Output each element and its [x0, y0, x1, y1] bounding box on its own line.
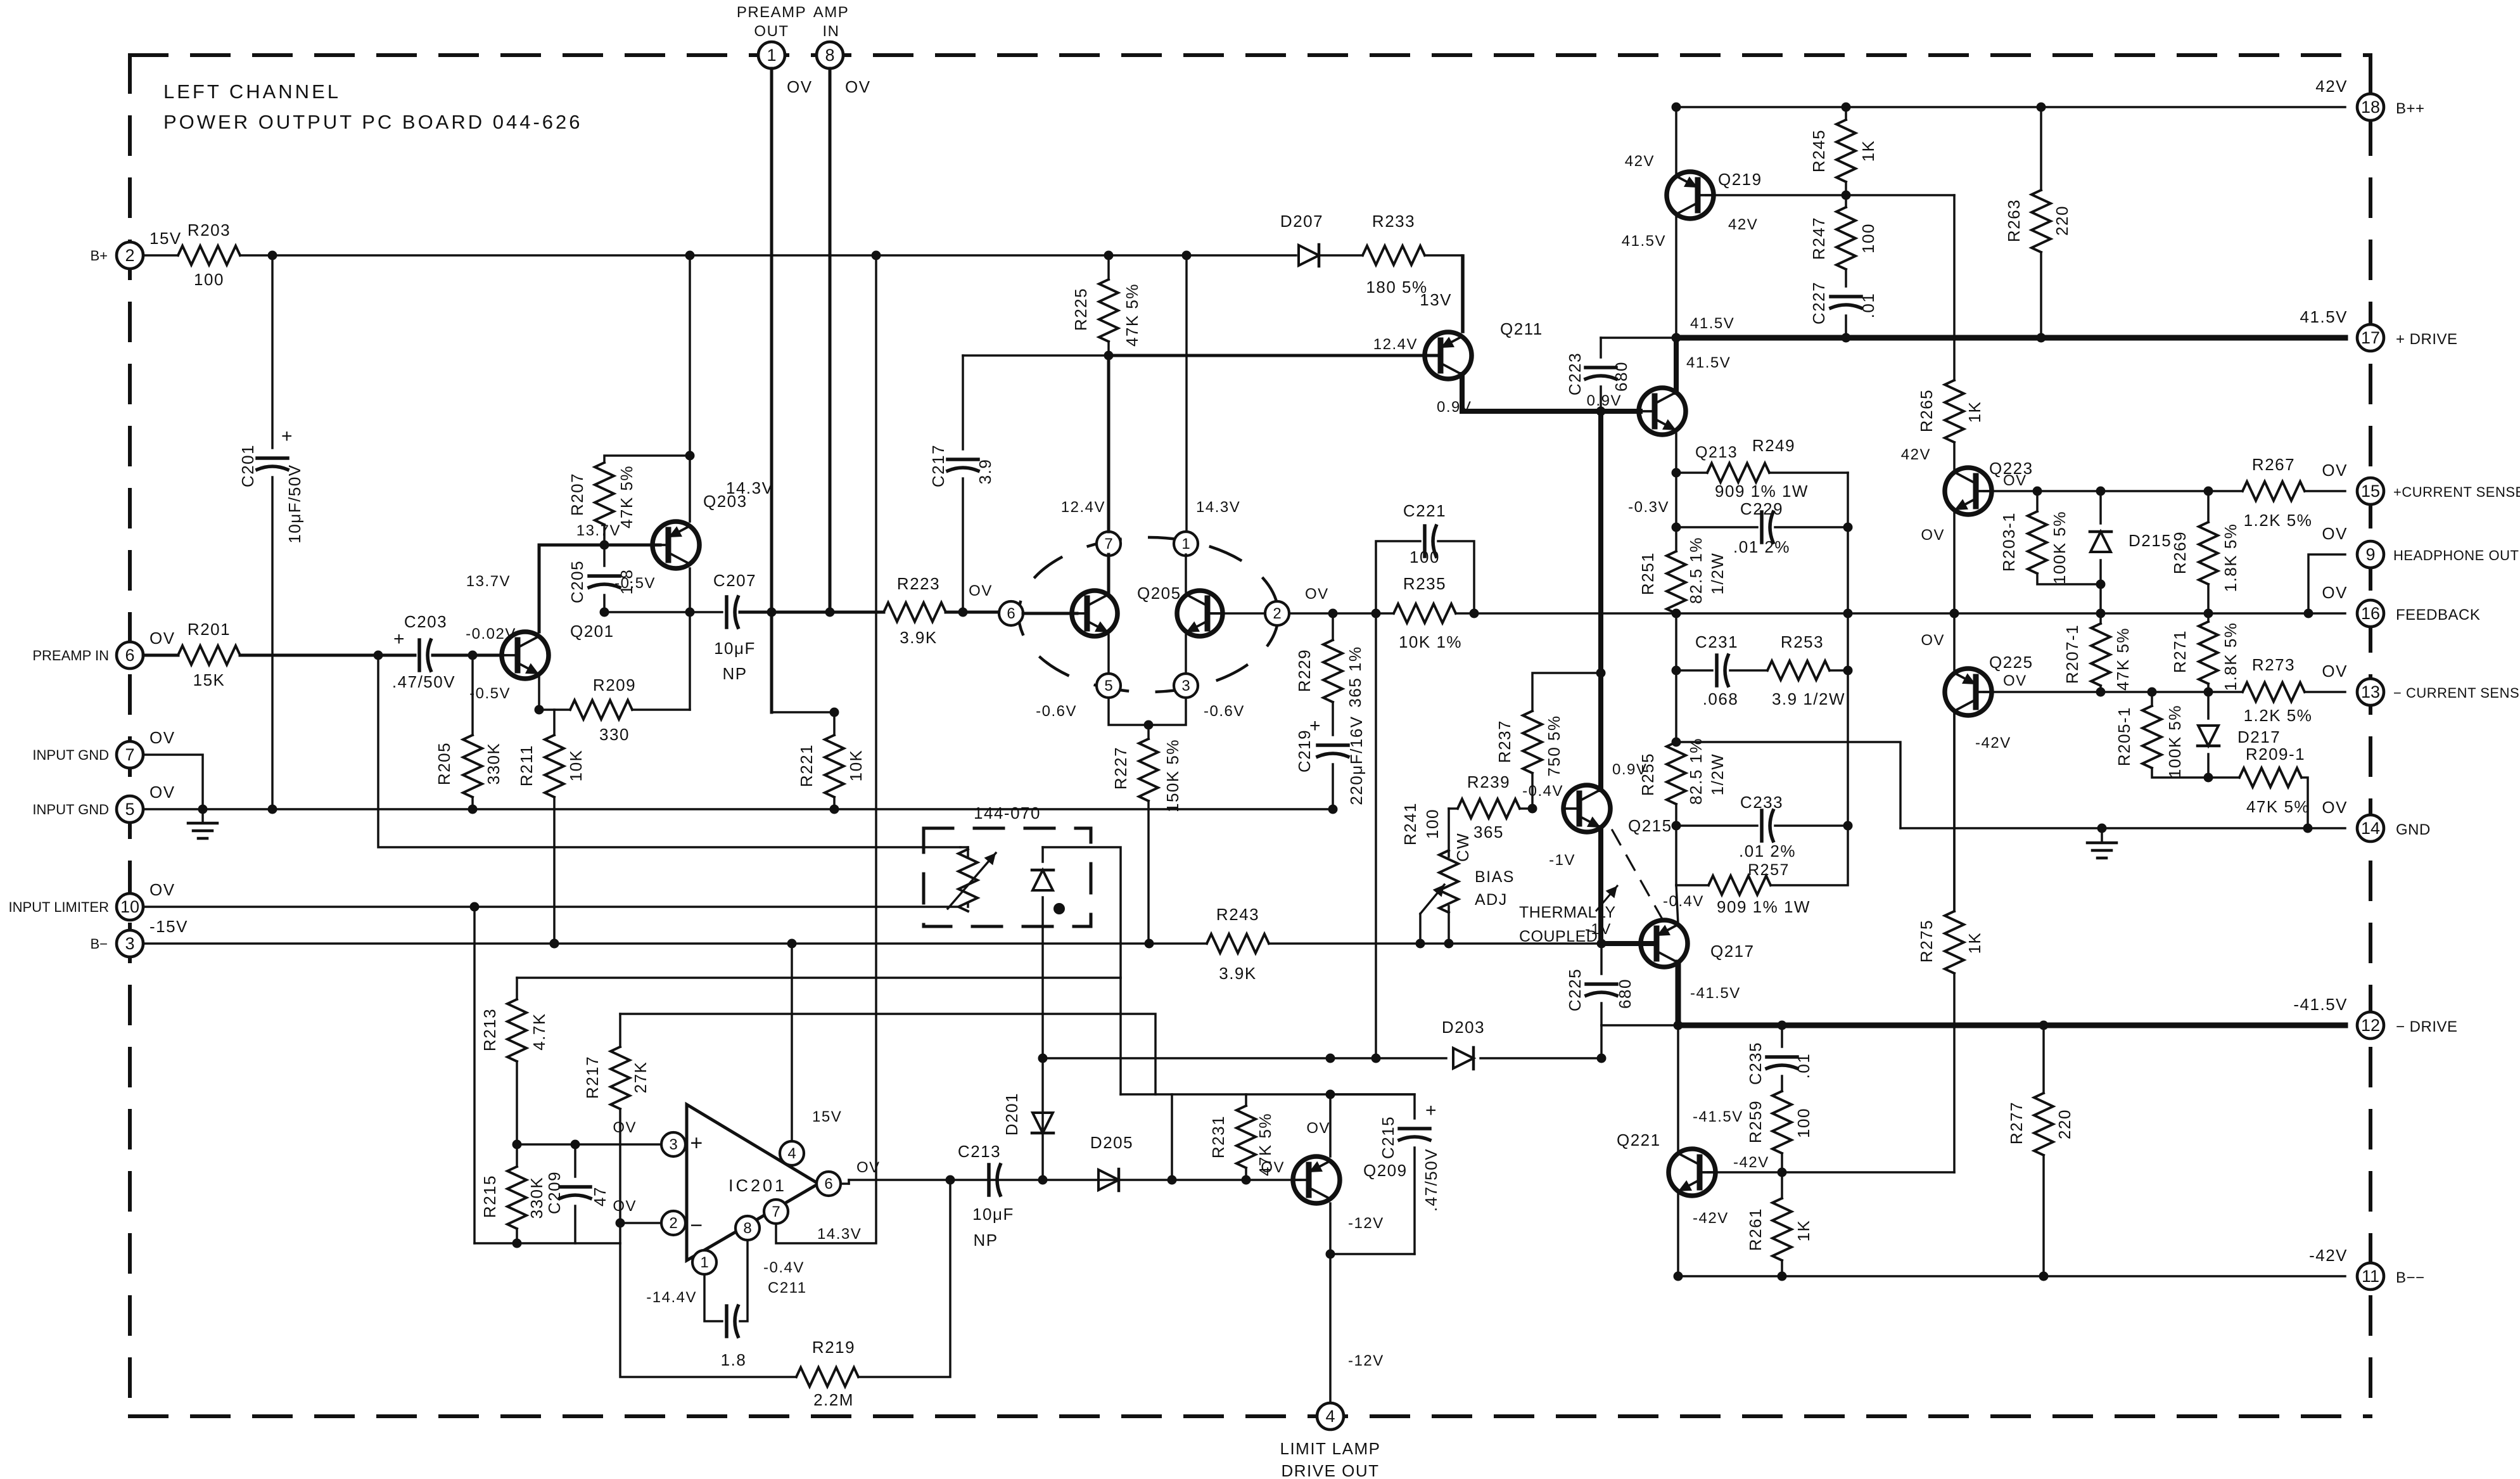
- transistor Q211 PNP: [1425, 332, 1472, 379]
- svg-text:150K 5%: 150K 5%: [1163, 739, 1182, 812]
- wire terminal 7 jog: [143, 755, 203, 809]
- svg-text:82.5 1%: 82.5 1%: [1686, 738, 1705, 805]
- capacitor C227: [1831, 295, 1861, 298]
- svg-text:C201: C201: [238, 444, 257, 487]
- svg-text:1K: 1K: [1859, 140, 1878, 162]
- svg-text:C231: C231: [1695, 632, 1738, 651]
- terminal 15 +CURRENT SENSE: [2357, 478, 2384, 504]
- svg-text:100: 100: [1410, 547, 1440, 567]
- svg-text:1K: 1K: [1965, 932, 1984, 954]
- terminal 6 PREAMP IN: [117, 642, 143, 669]
- svg-text:+: +: [1425, 1100, 1437, 1121]
- svg-text:10μF: 10μF: [972, 1205, 1014, 1224]
- svg-text:5: 5: [1104, 677, 1112, 695]
- wire clamp node horizontal: [1121, 1093, 1415, 1096]
- svg-text:R207-1: R207-1: [2063, 624, 2082, 684]
- svg-text:C217: C217: [929, 444, 948, 487]
- svg-text:15K: 15K: [193, 670, 226, 689]
- pin 7 of Q205: [1097, 532, 1121, 556]
- dual transistor Q205 dashed outline: [1019, 537, 1278, 692]
- resistor R225: [1107, 255, 1110, 279]
- svg-text:3.9 1/2W: 3.9 1/2W: [1772, 689, 1845, 708]
- svg-text:R235: R235: [1403, 574, 1446, 593]
- svg-text:2: 2: [125, 246, 134, 265]
- svg-text:INPUT GND: INPUT GND: [32, 802, 109, 817]
- wire Q215 emitter to -1V node: [1598, 828, 1603, 944]
- svg-text:.01 2%: .01 2%: [1733, 537, 1790, 556]
- svg-text:15V: 15V: [812, 1108, 842, 1125]
- svg-text:R231: R231: [1209, 1115, 1228, 1158]
- svg-text:R247: R247: [1809, 217, 1828, 260]
- wire pin1 to B+ rail: [1185, 255, 1188, 532]
- svg-text:.01: .01: [1859, 293, 1878, 319]
- potentiometer R241 BIAS ADJ: [1448, 809, 1450, 857]
- resistor R207: [604, 456, 690, 463]
- svg-text:365 1%: 365 1%: [1346, 646, 1365, 707]
- svg-text:100: 100: [1859, 223, 1878, 253]
- terminal 9 HEADPHONE OUT: [2357, 541, 2384, 568]
- svg-text:-12V: -12V: [1348, 1215, 1384, 1232]
- svg-text:Q219: Q219: [1718, 170, 1762, 189]
- ground symbol: [201, 809, 204, 823]
- svg-text:10μF: 10μF: [714, 639, 756, 658]
- capacitor C235: [1781, 1025, 1783, 1047]
- svg-text:2: 2: [669, 1215, 677, 1232]
- terminal 13 -CURRENT SENSE: [2357, 679, 2384, 705]
- svg-text:1.8K 5%: 1.8K 5%: [2221, 523, 2240, 592]
- wire C221 left bracket drop: [1375, 613, 1377, 1058]
- svg-text:13.7V: 13.7V: [466, 573, 511, 590]
- capacitor C215: [1330, 1094, 1415, 1118]
- svg-text:14: 14: [2361, 819, 2380, 838]
- svg-text:R251: R251: [1638, 552, 1657, 595]
- terminal 18 B++: [2357, 94, 2384, 120]
- svg-text:R207: R207: [568, 473, 587, 516]
- svg-text:AMP: AMP: [813, 4, 850, 21]
- capacitor C211: [704, 1274, 722, 1321]
- svg-text:-0.6V: -0.6V: [1036, 703, 1077, 720]
- svg-text:41.5V: 41.5V: [1622, 233, 1666, 250]
- resistor R213: [516, 978, 518, 999]
- svg-text:47: 47: [590, 1186, 609, 1207]
- wire Q209 collector: [1329, 1094, 1332, 1156]
- svg-text:OV: OV: [150, 728, 175, 747]
- svg-text:4.7K: 4.7K: [530, 1013, 549, 1051]
- wire Q213 emitter: [1675, 430, 1677, 473]
- svg-text:R275: R275: [1917, 919, 1936, 963]
- resistor R263: [2040, 107, 2042, 190]
- svg-text:-42V: -42V: [1733, 1154, 1769, 1171]
- svg-text:47K 5%: 47K 5%: [617, 465, 636, 528]
- svg-text:R217: R217: [583, 1056, 602, 1099]
- wire output node to C207: [604, 611, 722, 613]
- terminal 17 +DRIVE: [2357, 324, 2384, 351]
- svg-text:-42V: -42V: [1693, 1210, 1729, 1227]
- svg-text:R269: R269: [2170, 531, 2189, 574]
- wire D205 clamp riser: [1171, 1094, 1173, 1180]
- wire Q221 base: [1708, 1171, 1782, 1174]
- wire Q225 base -current sense line: [1984, 691, 2243, 693]
- svg-text:C221: C221: [1403, 501, 1446, 520]
- svg-text:R241: R241: [1401, 802, 1420, 845]
- svg-text:Q209: Q209: [1363, 1161, 1408, 1180]
- wire Q211 emitter 0.9V: [1460, 375, 1465, 411]
- svg-text:POWER OUTPUT PC BOARD 044-626: POWER OUTPUT PC BOARD 044-626: [163, 111, 583, 133]
- diode D205: [1098, 1170, 1119, 1190]
- wire input to limiter network: [378, 655, 960, 847]
- pin 3 of Q205: [1174, 674, 1198, 698]
- terminal 16 FEEDBACK: [2357, 600, 2384, 627]
- resistor R265: [1953, 195, 1956, 380]
- svg-text:12.4V: 12.4V: [1061, 499, 1105, 516]
- transistor Q223: [1945, 468, 1992, 515]
- svg-text:INPUT GND: INPUT GND: [32, 747, 109, 763]
- pin 1 of IC201: [692, 1250, 716, 1274]
- svg-text:3.9: 3.9: [976, 459, 995, 485]
- svg-text:OV: OV: [1921, 632, 1945, 649]
- wire -1V bias line: [1269, 942, 1656, 945]
- svg-text:R233: R233: [1372, 212, 1415, 231]
- capacitor C231: [1675, 613, 1677, 670]
- wire divider bottom bracket: [474, 1242, 620, 1245]
- svg-text:10K 1%: 10K 1%: [1399, 632, 1462, 651]
- transistor Q209 PNP: [1293, 1156, 1340, 1203]
- svg-text:C213: C213: [958, 1142, 1001, 1161]
- wire D207 to R233: [1320, 254, 1363, 257]
- svg-text:1.2K 5%: 1.2K 5%: [2244, 511, 2313, 530]
- svg-text:+CURRENT SENSE: +CURRENT SENSE: [2393, 484, 2520, 500]
- terminal 14 GND: [2357, 815, 2384, 842]
- svg-text:1: 1: [700, 1254, 708, 1271]
- svg-text:− DRIVE: − DRIVE: [2396, 1018, 2458, 1035]
- svg-text:220: 220: [2055, 1109, 2074, 1139]
- resistor R271: [2207, 613, 2210, 622]
- svg-text:FEEDBACK: FEEDBACK: [2396, 606, 2480, 624]
- terminal 3 B-: [117, 930, 143, 957]
- svg-text:4: 4: [1325, 1407, 1335, 1426]
- wire Q209 emitter: [1329, 1203, 1332, 1403]
- svg-text:5: 5: [125, 800, 134, 819]
- resistor R269: [2207, 491, 2210, 522]
- svg-text:.01 2%: .01 2%: [1739, 842, 1796, 861]
- svg-text:C211: C211: [768, 1279, 807, 1297]
- svg-text:41.5V: 41.5V: [1690, 315, 1734, 332]
- wire Q225 emitter down: [1953, 711, 1956, 911]
- svg-text:R205: R205: [435, 742, 454, 785]
- svg-text:D217: D217: [2237, 727, 2281, 746]
- svg-text:R209-1: R209-1: [2246, 745, 2305, 764]
- pin 3 of IC201: [661, 1132, 685, 1156]
- svg-text:10: 10: [120, 897, 139, 916]
- svg-text:R223: R223: [897, 574, 940, 593]
- wire Q221 collector: [1677, 1025, 1679, 1153]
- svg-text:Q221: Q221: [1617, 1130, 1661, 1149]
- capacitor C233: [1676, 824, 1757, 827]
- svg-text:+: +: [281, 426, 293, 447]
- wire pin3 input network: [517, 1143, 661, 1146]
- svg-text:144-070: 144-070: [974, 804, 1041, 823]
- svg-text:13V: 13V: [1420, 290, 1452, 309]
- svg-text:R215: R215: [480, 1175, 499, 1218]
- transistor Q215: [1563, 785, 1610, 832]
- svg-text:1: 1: [1181, 535, 1190, 553]
- svg-text:-0.4V: -0.4V: [1522, 783, 1563, 800]
- transistor Q217 PNP: [1641, 920, 1688, 967]
- svg-text:7: 7: [125, 745, 134, 764]
- svg-text:47K 5%: 47K 5%: [1123, 283, 1142, 347]
- svg-text:OV: OV: [2003, 472, 2027, 489]
- svg-text:C215: C215: [1378, 1116, 1397, 1159]
- svg-text:R227: R227: [1111, 746, 1130, 790]
- pin 2 of Q205: [1265, 601, 1289, 625]
- svg-text:27K: 27K: [631, 1061, 650, 1094]
- wire to R221: [772, 711, 834, 714]
- svg-text:1K: 1K: [1965, 401, 1984, 423]
- diode D207: [1299, 245, 1319, 266]
- svg-text:C233: C233: [1740, 793, 1783, 812]
- svg-text:42V: 42V: [1728, 216, 1758, 233]
- svg-text:R203: R203: [188, 221, 231, 240]
- transistor Q205b: [1177, 591, 1223, 636]
- svg-text:-15V: -15V: [150, 917, 188, 936]
- svg-text:7: 7: [772, 1203, 780, 1220]
- transistor Q213: [1639, 388, 1686, 435]
- svg-text:R255: R255: [1638, 753, 1657, 796]
- svg-text:330: 330: [599, 725, 630, 744]
- svg-text:BIAS: BIAS: [1475, 868, 1515, 886]
- resistor R277: [2042, 1025, 2045, 1093]
- terminal 1 PREAMP OUT: [758, 42, 785, 68]
- svg-text:OV: OV: [150, 629, 175, 648]
- svg-text:1: 1: [767, 46, 776, 65]
- resistor R233: [1363, 246, 1425, 265]
- svg-text:-41.5V: -41.5V: [1693, 1108, 1743, 1125]
- svg-text:COUPLED: COUPLED: [1519, 928, 1598, 945]
- svg-text:OV: OV: [969, 582, 993, 599]
- svg-text:42V: 42V: [1901, 446, 1931, 463]
- svg-text:PREAMP IN: PREAMP IN: [32, 648, 109, 663]
- capacitor C201: [271, 255, 274, 448]
- svg-text:R237: R237: [1495, 720, 1514, 763]
- svg-text:R249: R249: [1752, 436, 1795, 455]
- resistor R249: [1676, 471, 1707, 474]
- svg-text:C223: C223: [1565, 352, 1584, 395]
- thermistor in 144-070: [960, 846, 968, 848]
- svg-text:.47/50V: .47/50V: [392, 672, 455, 691]
- svg-text:B−−: B−−: [2396, 1269, 2425, 1286]
- svg-text:Q205: Q205: [1137, 584, 1181, 603]
- svg-text:330K: 330K: [484, 743, 503, 785]
- svg-text:R209: R209: [593, 675, 636, 695]
- resistor R261: [1781, 1172, 1783, 1198]
- wire B- rail -15V: [143, 942, 1207, 945]
- svg-text:1.2K 5%: 1.2K 5%: [2244, 706, 2313, 725]
- resistor R207-1: [2099, 613, 2102, 624]
- svg-text:Q213: Q213: [1695, 444, 1738, 461]
- svg-text:D203: D203: [1442, 1018, 1485, 1037]
- svg-text:OV: OV: [613, 1198, 637, 1215]
- resistor R211: [553, 710, 556, 735]
- capacitor C229: [1676, 526, 1757, 528]
- svg-text:D201: D201: [1002, 1092, 1021, 1136]
- resistor R257: [1675, 826, 1677, 885]
- terminal 10 INPUT LIMITER: [117, 893, 143, 920]
- svg-text:-14.4V: -14.4V: [646, 1289, 697, 1306]
- svg-text:NP: NP: [722, 664, 747, 683]
- wire amp in drop: [829, 68, 832, 612]
- pin 6 of IC201: [817, 1172, 841, 1196]
- svg-text:3.9K: 3.9K: [900, 628, 938, 647]
- terminal 4 LIMIT LAMP DRIVE OUT: [1317, 1403, 1344, 1430]
- svg-text:− CURRENT SENSE: − CURRENT SENSE: [2393, 685, 2520, 701]
- capacitor C207: [725, 597, 729, 627]
- svg-text:13.7V: 13.7V: [576, 522, 621, 539]
- pin 5 of Q205: [1097, 674, 1121, 698]
- svg-text:OV: OV: [2322, 461, 2348, 480]
- svg-text:82.5 1%: 82.5 1%: [1686, 537, 1705, 604]
- svg-text:R263: R263: [2004, 199, 2023, 242]
- svg-text:Q225: Q225: [1989, 653, 2033, 672]
- capacitor C223: [1600, 338, 1602, 357]
- svg-text:C225: C225: [1565, 968, 1584, 1011]
- resistor R231: [1245, 1094, 1247, 1106]
- capacitor C209: [574, 1144, 576, 1177]
- transistor Q221: [1669, 1149, 1715, 1196]
- wire Q223 base 0V line: [1984, 490, 2243, 492]
- svg-text:C227: C227: [1809, 281, 1828, 324]
- resistor R239: [1449, 807, 1458, 810]
- svg-text:B+: B+: [90, 248, 108, 264]
- resistor R227: [1147, 725, 1150, 739]
- wire pin2 to divider: [620, 1222, 661, 1224]
- svg-text:750 5%: 750 5%: [1544, 715, 1563, 776]
- wire pin7 to B+ rail: [776, 255, 876, 1243]
- svg-text:OV: OV: [787, 77, 813, 96]
- svg-text:−: −: [690, 1213, 703, 1238]
- svg-text:15V: 15V: [150, 229, 182, 248]
- wire preamp out drop: [770, 68, 773, 712]
- svg-text:R245: R245: [1809, 129, 1828, 172]
- svg-text:42V: 42V: [2315, 77, 2348, 96]
- svg-text:+ DRIVE: + DRIVE: [2396, 331, 2458, 348]
- resistor R219 2.2M feedback: [620, 1243, 796, 1377]
- svg-text:12: 12: [2361, 1016, 2380, 1035]
- transistor Q219 PNP: [1667, 172, 1714, 219]
- svg-text:1/2W: 1/2W: [1708, 553, 1727, 595]
- svg-text:41.5V: 41.5V: [1686, 354, 1731, 371]
- svg-text:LIMIT LAMP: LIMIT LAMP: [1280, 1439, 1380, 1458]
- svg-text:+: +: [690, 1131, 703, 1155]
- wire Q217 collector to ladder: [1676, 885, 1678, 925]
- svg-text:-0.3V: -0.3V: [1628, 499, 1669, 516]
- wire Q221 emitter: [1677, 1191, 1679, 1276]
- wire Q219 base 42V: [1706, 194, 1954, 196]
- wire D203 to -drive rail riser: [1600, 1025, 1603, 1058]
- wire limiter riser: [473, 907, 476, 1243]
- svg-text:OV: OV: [2322, 583, 2348, 602]
- svg-text:330K: 330K: [527, 1177, 546, 1219]
- wire Q215 collector: [1598, 411, 1603, 790]
- svg-text:10K: 10K: [566, 750, 585, 782]
- svg-text:1.8: 1.8: [721, 1350, 747, 1369]
- svg-text:R225: R225: [1071, 288, 1090, 331]
- svg-text:7: 7: [1104, 535, 1112, 553]
- wire Q203 emitter to B+ rail: [689, 255, 691, 456]
- svg-text:10μF/50V: 10μF/50V: [285, 464, 304, 543]
- svg-text:C205: C205: [568, 560, 587, 603]
- wire Q205 emitters join: [1109, 698, 1186, 725]
- svg-text:-0.4V: -0.4V: [1663, 893, 1704, 910]
- svg-text:180 5%: 180 5%: [1366, 278, 1427, 297]
- wire Q219 collector to +drive: [1675, 214, 1677, 338]
- wire B-- rail: [1678, 1275, 2345, 1277]
- wire R233 to Q211 collector: [1425, 255, 1463, 332]
- wire -drive rail: [1601, 1024, 1678, 1027]
- svg-text:OV: OV: [2322, 524, 2348, 543]
- capacitor C221: [1376, 541, 1420, 613]
- svg-text:IC201: IC201: [729, 1176, 787, 1195]
- transistor Q201: [502, 632, 549, 679]
- capacitor C213: [987, 1165, 991, 1195]
- wire right ladder vertical: [1847, 473, 1849, 826]
- svg-text:R253: R253: [1781, 632, 1824, 651]
- svg-text:0.9V: 0.9V: [1587, 392, 1622, 409]
- svg-text:R221: R221: [797, 744, 816, 787]
- svg-text:Q217: Q217: [1710, 942, 1755, 961]
- svg-text:47K 5%: 47K 5%: [2113, 627, 2132, 691]
- svg-text:C207: C207: [713, 571, 756, 590]
- svg-text:6: 6: [125, 646, 134, 665]
- limiter module 144-070 dashed box: [924, 828, 1091, 926]
- svg-text:DRIVE OUT: DRIVE OUT: [1281, 1461, 1379, 1479]
- capacitor C225: [1600, 944, 1603, 974]
- resistor R237: [1531, 773, 1534, 809]
- resistor R243: [1207, 934, 1269, 953]
- svg-text:100: 100: [1423, 809, 1442, 839]
- wire B+ rail 15V: [143, 254, 178, 257]
- svg-text:THERMALLY: THERMALLY: [1519, 904, 1616, 921]
- resistor R255: [1667, 742, 1686, 804]
- svg-text:3: 3: [669, 1136, 677, 1153]
- svg-text:3: 3: [125, 934, 134, 953]
- svg-text:220: 220: [2052, 205, 2071, 236]
- svg-text:R219: R219: [812, 1338, 855, 1357]
- terminal 11 B--: [2357, 1263, 2384, 1290]
- svg-text:909 1% 1W: 909 1% 1W: [1715, 482, 1809, 501]
- svg-text:OV: OV: [2322, 662, 2348, 681]
- pin 2 of IC201: [661, 1211, 685, 1235]
- ground symbol right: [2101, 828, 2103, 843]
- svg-text:2.2M: 2.2M: [813, 1390, 854, 1409]
- svg-text:11: 11: [2362, 1267, 2379, 1286]
- transistor Q205a: [1072, 591, 1117, 636]
- svg-text:-0.4V: -0.4V: [763, 1259, 805, 1276]
- svg-text:R201: R201: [188, 620, 231, 639]
- svg-text:R243: R243: [1216, 905, 1259, 924]
- wire Q217 emitter -41.5V: [1676, 963, 1681, 1025]
- svg-text:3: 3: [1181, 677, 1190, 695]
- diode D217: [2207, 692, 2210, 719]
- svg-text:-0.6V: -0.6V: [1204, 703, 1245, 720]
- svg-text:42V: 42V: [1625, 153, 1655, 170]
- pin 7 of IC201: [764, 1200, 788, 1224]
- svg-text:1.8K 5%: 1.8K 5%: [2221, 622, 2240, 691]
- svg-text:R203-1: R203-1: [1999, 512, 2018, 572]
- wire Q223 emitter to feedback rail: [1953, 510, 1956, 613]
- svg-text:R271: R271: [2170, 630, 2189, 673]
- resistor R201: [178, 646, 240, 665]
- svg-text:2: 2: [1273, 605, 1281, 622]
